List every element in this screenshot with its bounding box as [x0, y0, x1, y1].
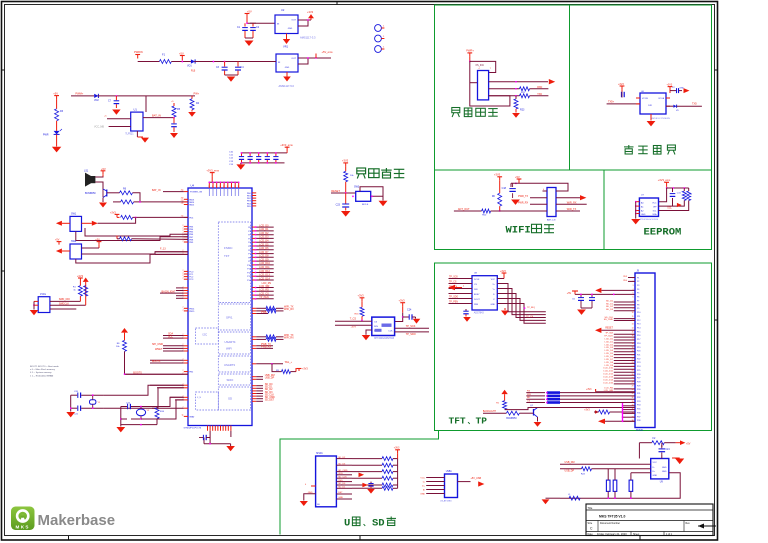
wire buzzer to +5V and transistor — [102, 175, 104, 177]
wire FSMC D13 — [252, 275, 256, 277]
svg-text:6: 6 — [633, 297, 634, 299]
svg-text:LCD_RS: LCD_RS — [604, 387, 613, 389]
svg-text:2: 2 — [183, 225, 184, 227]
wire SD GND — [336, 498, 352, 500]
svg-text:26: 26 — [632, 374, 634, 376]
svg-text:P10: P10 — [637, 312, 640, 314]
wire U8 TP_PEN — [449, 303, 473, 305]
svg-text:F2: F2 — [653, 437, 656, 440]
svg-text:DOUT: DOUT — [474, 299, 480, 301]
svg-text:TP_PEN: TP_PEN — [259, 296, 269, 299]
svg-text:P3: P3 — [637, 285, 639, 287]
capacitor C25 — [621, 89, 623, 91]
svg-text:TFT26: TFT26 — [636, 430, 643, 432]
ground right of switch — [382, 196, 384, 200]
svg-text:USB_DP: USB_DP — [265, 377, 275, 380]
svg-text:BAT_IN: BAT_IN — [152, 189, 161, 192]
svg-text:U9: U9 — [660, 482, 664, 484]
wire SD_D2 — [252, 390, 256, 392]
wire MCU pin BAT_IN — [184, 191, 188, 193]
svg-text:P11: P11 — [637, 316, 640, 318]
svg-text:D-: D- — [423, 481, 426, 483]
wire TFT LCD_RS — [614, 388, 635, 390]
MCU inner block I2C — [196, 328, 219, 344]
wire FSMC D6 — [252, 249, 256, 251]
svg-text:P20: P20 — [637, 351, 640, 353]
wire cap gnd rail — [225, 74, 238, 76]
svg-text:GND: GND — [491, 304, 496, 306]
ground below C1 C2 — [245, 41, 254, 47]
MCU pin BOOT0 — [184, 371, 188, 373]
svg-text:LCD_D3: LCD_D3 — [259, 236, 269, 239]
svg-text:25: 25 — [181, 190, 183, 192]
svg-text:PA13: PA13 — [189, 198, 195, 201]
wire diode to right rail — [98, 95, 195, 97]
resistor pack RP1 (4 resistors) — [547, 391, 560, 394]
svg-text:14: 14 — [632, 328, 634, 330]
svg-text:C21: C21 — [74, 414, 79, 416]
ground at cap bank — [240, 163, 242, 165]
svg-text:USB1: USB1 — [446, 471, 453, 473]
wire SD_CMD — [252, 398, 256, 400]
voltage regulator VR1 — [276, 54, 298, 72]
transistor Q1 — [102, 189, 104, 197]
svg-text:T_CS: T_CS — [350, 318, 357, 321]
svg-text:P2: P2 — [637, 281, 639, 283]
svg-text:C12: C12 — [229, 158, 234, 160]
MCU pins PB3-PB9 group — [184, 225, 188, 227]
wire TFT LCD_D11 — [614, 371, 635, 373]
svg-text:L1: L1 — [568, 494, 571, 496]
svg-text:TLP521: TLP521 — [125, 133, 134, 136]
svg-text:USART3: USART3 — [224, 363, 235, 367]
wire diode to regulator VR1 — [194, 61, 276, 63]
svg-text:P18: P18 — [637, 343, 640, 345]
wire external left loop — [470, 61, 510, 106]
svg-text:9: 9 — [238, 186, 239, 188]
svg-text:U7: U7 — [641, 195, 645, 197]
wire SW2 to MCU — [82, 252, 189, 254]
buzzer SP1 — [85, 173, 91, 187]
svg-text:+3V3: +3V3 — [77, 274, 84, 278]
ground bottom left usb — [542, 499, 550, 504]
ground below C23 — [341, 211, 350, 217]
MCU pins PB10 group with BACKLIGHT — [184, 287, 188, 289]
svg-text:SD: SD — [372, 518, 385, 530]
wire U8 TP_CS — [449, 283, 473, 285]
svg-text:C24: C24 — [665, 449, 670, 451]
junction usb rail — [608, 497, 610, 499]
svg-text:GND: GND — [285, 67, 290, 69]
wire USB vcc right — [458, 481, 471, 483]
wire crystal2 bottom — [121, 418, 127, 420]
svg-text:GND: GND — [288, 28, 293, 30]
svg-text:9: 9 — [234, 186, 235, 188]
svg-text:R22: R22 — [521, 92, 526, 94]
svg-text:、: 、 — [363, 521, 370, 529]
svg-text:LCD_D10: LCD_D10 — [603, 368, 613, 370]
wire SD_D3 — [252, 393, 256, 395]
svg-text:USB_DM: USB_DM — [565, 461, 575, 464]
section box EEPROM — [604, 170, 712, 250]
svg-text:SPI_CMD: SPI_CMD — [152, 343, 163, 346]
svg-text:R16: R16 — [354, 313, 359, 315]
svg-text:+3V3: +3V3 — [342, 159, 349, 163]
MCU pins SPI flash group — [184, 345, 188, 347]
svg-text:PA14: PA14 — [189, 201, 195, 204]
wire FSMC D11 — [252, 268, 256, 270]
wire SW1 to MCU — [97, 222, 99, 224]
wire PWRIN to fuse — [138, 61, 160, 63]
svg-text:P32: P32 — [637, 397, 640, 399]
svg-text:0 1 -- System memory: 0 1 -- System memory — [30, 371, 52, 374]
svg-text:MKS: MKS — [15, 524, 29, 529]
svg-text:P21: P21 — [637, 355, 640, 357]
capacitor C27 below U8 — [465, 309, 467, 311]
svg-text:P31: P31 — [637, 393, 640, 395]
wire FSMC D8 — [252, 256, 256, 258]
ground below U6 — [650, 114, 652, 121]
svg-text:LCD_D13: LCD_D13 — [259, 274, 270, 277]
svg-text:TP_SCK: TP_SCK — [406, 325, 416, 328]
svg-text:DET: DET — [338, 492, 343, 494]
svg-text:OUT: OUT — [291, 58, 296, 60]
svg-text:SWDCLK: SWDCLK — [59, 302, 70, 305]
svg-text:PWRIN: PWRIN — [134, 50, 143, 54]
wire +3V3 to U5 pin and cap — [402, 307, 404, 313]
wire U5 right pins to TFT box — [395, 327, 429, 329]
svg-text:9: 9 — [212, 186, 213, 188]
svg-text:22: 22 — [632, 358, 634, 360]
resistor R18 wifi — [498, 193, 502, 206]
wire TFT SD_D0 — [614, 301, 635, 303]
svg-text:LCD_D0: LCD_D0 — [259, 224, 269, 227]
svg-text:P5: P5 — [637, 293, 639, 295]
voltage regulator U2 — [275, 15, 298, 34]
wire FSMC D4 — [252, 241, 256, 243]
svg-text:LCD_D6: LCD_D6 — [259, 247, 269, 250]
wire SD SD_CLK — [336, 477, 352, 479]
svg-text:C4: C4 — [241, 66, 245, 69]
wire +5V to U2 — [246, 18, 248, 24]
svg-text:U1: U1 — [134, 108, 138, 112]
wire crystal1 to MCU PC14 — [104, 385, 184, 395]
svg-text:R5: R5 — [177, 108, 181, 111]
arrow right USB power — [478, 481, 484, 486]
svg-text:LCD_D2: LCD_D2 — [605, 344, 614, 346]
svg-text:9: 9 — [633, 308, 634, 310]
wire VR1 output +5V_ems — [298, 58, 308, 64]
svg-text:P12: P12 — [637, 320, 640, 322]
mounting hole M1 — [375, 25, 382, 32]
svg-text:SN74LVC1T45DBV: SN74LVC1T45DBV — [651, 118, 671, 120]
label 电平转换 — [624, 145, 634, 154]
wire caps to ground — [245, 37, 253, 39]
svg-text:ADS7843: ADS7843 — [474, 312, 485, 315]
power arrow +3V3 BOOT — [121, 328, 128, 333]
svg-text:RESET: RESET — [605, 328, 613, 330]
MCU SPI1 wires with resistors — [252, 307, 256, 309]
svg-text:LCD_D1: LCD_D1 — [605, 341, 614, 343]
svg-text:P30: P30 — [637, 389, 640, 391]
wire TFT LCD_D4 — [614, 351, 635, 353]
svg-text:FLB: FLB — [191, 70, 196, 73]
svg-text:LCD_RD: LCD_RD — [259, 289, 269, 292]
svg-text:LCD_D11: LCD_D11 — [259, 266, 270, 269]
svg-text:+3V3: +3V3 — [307, 10, 314, 14]
svg-text:1: 1 — [383, 47, 385, 49]
svg-text:1k: 1k — [73, 290, 76, 292]
svg-text:LCD_D12: LCD_D12 — [603, 374, 613, 376]
arrow left SW1 — [62, 222, 70, 224]
wire crystal1 top — [71, 394, 78, 396]
svg-text:F_N: F_N — [197, 397, 202, 399]
ground right of U9 — [672, 457, 680, 459]
svg-text:WIFI_TX: WIFI_TX — [567, 208, 577, 211]
svg-text:1 of 1: 1 of 1 — [666, 533, 673, 536]
svg-text:RD: RD — [527, 397, 531, 399]
diode VD1 — [191, 59, 195, 63]
microcontroller U4 body — [188, 188, 252, 426]
ground pin arrow VR1 — [286, 72, 288, 77]
svg-text:28: 28 — [181, 203, 183, 205]
svg-text:LS1: LS1 — [84, 170, 89, 173]
wire FSMC D10 — [252, 264, 256, 266]
svg-text:10k: 10k — [116, 346, 120, 348]
svg-text:BOOT1: BOOT1 — [152, 360, 161, 363]
svg-text:P34: P34 — [637, 405, 640, 407]
wire FSMC D2 — [252, 234, 256, 236]
svg-text:20: 20 — [632, 351, 634, 353]
junction bundle — [524, 307, 526, 309]
wire U5 left pins — [335, 320, 372, 322]
wire TFT LCD_D10 — [614, 368, 635, 370]
svg-text:P22: P22 — [637, 358, 640, 360]
resistor R3 — [56, 100, 58, 109]
svg-text:WIFI_RX: WIFI_RX — [284, 308, 294, 311]
svg-text:USB_DP: USB_DP — [565, 470, 575, 473]
svg-text:D-: D- — [653, 467, 656, 469]
svg-text:SW2: SW2 — [71, 240, 77, 243]
svg-text:VD1: VD1 — [187, 65, 192, 68]
svg-text:RESET: RESET — [331, 189, 340, 193]
svg-text:PWB: PWB — [261, 311, 267, 314]
svg-text:TAG_+: TAG_+ — [285, 361, 293, 364]
wire FSMC ctrl 0 — [252, 287, 256, 289]
wire TFT LCD_D9 — [614, 365, 635, 367]
svg-text:、: 、 — [468, 419, 475, 427]
svg-text:1: 1 — [383, 36, 385, 38]
svg-text:4: 4 — [479, 68, 481, 70]
wire TFT LCD_D13 — [614, 377, 635, 379]
svg-text:WIFI_RX: WIFI_RX — [284, 337, 294, 340]
wire BOOT0 — [125, 351, 189, 374]
wire TFT TP_SDI — [614, 333, 635, 335]
svg-text:+3V3: +3V3 — [302, 367, 308, 370]
wire bottom inductor — [553, 497, 560, 499]
wire SD_DET — [252, 400, 256, 402]
ground crystal2 — [120, 425, 122, 427]
resistor R6 base — [107, 192, 120, 194]
wire level out diode — [666, 105, 673, 107]
svg-text:XPT2046/ADS7843: XPT2046/ADS7843 — [374, 337, 395, 340]
svg-text:WIFI: WIFI — [226, 347, 232, 351]
svg-text:+3V3_ems: +3V3_ems — [280, 143, 293, 147]
arrow left TFT fmark — [448, 285, 455, 291]
wire TFT LCD_WR — [614, 391, 635, 393]
svg-text:LCD_D1: LCD_D1 — [259, 228, 269, 231]
fuse F2 — [639, 442, 651, 444]
svg-text:C2: C2 — [256, 26, 260, 29]
resistor R10 — [116, 236, 118, 239]
eeprom U7 body — [639, 198, 658, 216]
svg-text:SPI1: SPI1 — [226, 316, 233, 320]
ground below U8 pin — [504, 308, 506, 310]
MCU inner block USART4 WIFI — [218, 332, 250, 354]
resistor R11 — [79, 282, 81, 286]
power arrow up at JTAG — [83, 278, 89, 282]
svg-text:P24: P24 — [637, 366, 640, 368]
wire TFT LCD_D2 — [614, 345, 635, 347]
wire eeprom sda — [659, 201, 689, 211]
svg-text:Y-: Y- — [493, 299, 495, 301]
svg-text:P14: P14 — [637, 328, 640, 330]
svg-text:LCD_D0: LCD_D0 — [605, 338, 614, 340]
capacitor C12 — [258, 153, 260, 156]
svg-text:29: 29 — [632, 385, 634, 387]
svg-text:BACKLIGHT: BACKLIGHT — [162, 290, 177, 293]
svg-text:9: 9 — [231, 186, 232, 188]
label 复位开关 — [357, 168, 366, 179]
svg-text:SD_D0: SD_D0 — [338, 483, 346, 485]
svg-text:VCC: VCC — [652, 203, 657, 205]
wire fuse to diode — [171, 61, 191, 63]
arrow left tft bottom gnd — [598, 419, 605, 424]
wire opto out pin4 — [143, 117, 174, 119]
wire FSMC D3 — [252, 237, 256, 239]
svg-text:AMS1117-3.3: AMS1117-3.3 — [300, 36, 316, 40]
MCU bottom pin stubs — [207, 426, 209, 431]
wire SD SD_D3 — [336, 464, 352, 466]
svg-text:SD_D2: SD_D2 — [338, 457, 346, 459]
mounting hole M3 — [375, 46, 382, 53]
wire crystal1 bottom — [71, 407, 78, 409]
svg-text:TXD: TXD — [537, 93, 542, 96]
svg-text:19: 19 — [632, 347, 634, 349]
svg-text:10k: 10k — [350, 175, 354, 177]
ground external — [515, 109, 517, 113]
svg-text:US-AF-BBD: US-AF-BBD — [440, 500, 452, 503]
svg-text:VCC: VCC — [653, 462, 658, 464]
wire TFT LCD_D12 — [614, 374, 635, 376]
svg-text:TFT: TFT — [449, 416, 466, 427]
svg-text:LCD_D5: LCD_D5 — [605, 353, 614, 355]
svg-text:VSS: VSS — [338, 480, 343, 482]
svg-text:Y2: Y2 — [147, 410, 150, 412]
svg-text:P1: P1 — [637, 277, 639, 279]
MCU pin VBAT — [184, 415, 188, 417]
svg-text:2: 2 — [183, 275, 184, 277]
svg-text:25: 25 — [632, 370, 634, 372]
section box 外部接口 — [435, 5, 570, 170]
wire usb switch bottom rail — [560, 473, 680, 498]
svg-text:LCD_D12: LCD_D12 — [259, 270, 270, 273]
svg-text:TP_SDO: TP_SDO — [406, 333, 416, 336]
fuse F1 — [159, 60, 171, 64]
svg-text:VCCA: VCCA — [658, 97, 664, 100]
svg-text:LCD_D15: LCD_D15 — [603, 382, 613, 384]
svg-text:LCD_D13: LCD_D13 — [603, 377, 613, 379]
wire eeprom power rail — [667, 187, 689, 189]
svg-text:PE3: PE3 — [623, 276, 628, 278]
svg-text:8: 8 — [633, 304, 634, 306]
svg-text:PWR: PWR — [43, 133, 49, 136]
svg-text:SDIO: SDIO — [227, 378, 235, 382]
connector SW2 — [70, 244, 82, 259]
MCU TAG wire with resistor — [252, 363, 256, 365]
svg-text:LCD_D7: LCD_D7 — [605, 359, 614, 361]
wire TFT LCD_D8 — [614, 362, 635, 364]
power flag +5V usb switch — [676, 442, 680, 444]
wire crystal2 left rail — [121, 407, 157, 425]
svg-text:9: 9 — [227, 186, 228, 188]
svg-text:C14: C14 — [229, 164, 234, 166]
svg-text:PWR_RX: PWR_RX — [518, 202, 529, 205]
svg-text:P6: P6 — [637, 297, 639, 299]
capacitor C7 — [115, 96, 117, 100]
svg-text:9: 9 — [208, 186, 209, 188]
svg-text:BACKLIGHT: BACKLIGHT — [483, 410, 497, 413]
wire reset switch loop — [360, 187, 383, 197]
svg-text:U8: U8 — [474, 273, 478, 275]
svg-text:PEN: PEN — [474, 304, 479, 306]
svg-text:P38: P38 — [637, 420, 640, 422]
svg-text:CS: CS — [527, 401, 531, 403]
svg-text:28: 28 — [632, 382, 634, 384]
svg-text:U4: U4 — [191, 184, 195, 188]
svg-text:4: 4 — [305, 484, 307, 486]
svg-text:BOOT1 BOOT0 -- Boot mode: BOOT1 BOOT0 -- Boot mode — [30, 365, 59, 368]
wire external top loop — [469, 57, 471, 62]
svg-text:C1: C1 — [237, 26, 241, 29]
svg-text:PWM+: PWM+ — [75, 91, 83, 95]
svg-text:LCD_D14: LCD_D14 — [259, 277, 270, 280]
capacitor C30 SD — [370, 482, 372, 483]
svg-text:VCC: VCC — [491, 279, 496, 281]
ground eeprom — [631, 219, 640, 224]
svg-text:AT24C08-SOIC8-N: AT24C08-SOIC8-N — [639, 218, 658, 221]
wire fuse left down to IC — [638, 443, 640, 459]
svg-text:ID: ID — [423, 489, 426, 491]
svg-text:VCC_MB: VCC_MB — [94, 126, 104, 129]
wire TFT reset with arrow — [601, 329, 635, 331]
wire eeprom left pins to ground — [636, 201, 640, 203]
capacitor C24 — [408, 314, 410, 319]
wire wifi top loop — [511, 183, 568, 191]
wire wifi right rows — [556, 190, 568, 192]
power switch U9 body — [651, 459, 669, 479]
svg-text:SW1: SW1 — [71, 213, 77, 216]
resistor R13 BOOT0 — [123, 340, 127, 351]
capacitor C31 — [661, 445, 663, 447]
wire SD SD_D0 — [336, 484, 352, 486]
svg-text:+3V3: +3V3 — [394, 447, 400, 450]
wire level in — [607, 103, 640, 105]
svg-text:+5V: +5V — [515, 175, 520, 179]
label 外部接口 — [452, 108, 460, 118]
wire USB VCC — [426, 477, 444, 479]
svg-text:LCD_D4: LCD_D4 — [605, 350, 614, 352]
